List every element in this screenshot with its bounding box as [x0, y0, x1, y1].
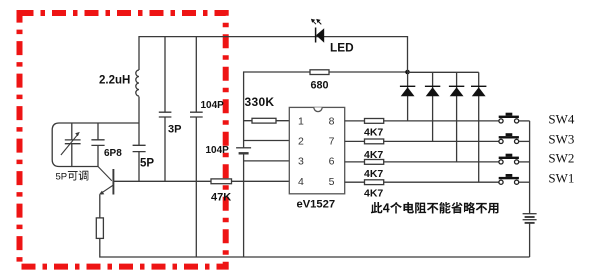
svg-text:1: 1: [298, 115, 304, 127]
wire: LED drop to junction: [407, 36, 409, 72]
IC U1 eV1527 body: [289, 107, 344, 193]
LED D5 emission arrows: [313, 21, 322, 25]
variable capacitor CV arrow: [61, 134, 78, 155]
svg-text:47K: 47K: [211, 192, 231, 204]
wire: SW2 to right bus: [519, 161, 530, 163]
diode D1 cathode bar: [400, 85, 415, 87]
red dash-dot highlight frame around oscillator section: [20, 13, 226, 267]
svg-text:5P: 5P: [56, 171, 68, 182]
wire: SW4 to right bus: [519, 120, 530, 122]
resistor 4K7 (1) body: [365, 119, 384, 124]
capacitor 3P plates: [159, 112, 172, 117]
wire: IC pin 3: [244, 160, 290, 162]
svg-text:4K7: 4K7: [364, 126, 383, 138]
svg-text:6P8: 6P8: [104, 148, 122, 159]
diode D4 lead wire: [478, 72, 480, 182]
capacitor C104P-a plates: [190, 112, 203, 117]
svg-text:330K: 330K: [245, 95, 275, 109]
wire: SW3 to right bus: [519, 140, 530, 142]
svg-text:4K7: 4K7: [364, 168, 383, 180]
svg-text:8: 8: [329, 115, 335, 127]
wire: battery to ground rail: [529, 223, 531, 257]
wire: IC pin 6 row to switch: [345, 161, 499, 163]
switch SW4 body bar: [499, 116, 519, 118]
transistor Q1 emitter with arrow: [101, 185, 113, 193]
wire: emitter down to resistor RE: [99, 195, 101, 218]
diode D1 triangle: [401, 87, 415, 96]
wire: diode top bus: [408, 71, 479, 73]
resistor 330K body: [252, 118, 276, 123]
svg-text:680: 680: [311, 80, 329, 92]
capacitor C104P-b bottom plate: [239, 152, 249, 154]
svg-text:6: 6: [329, 156, 335, 168]
switch SW4 terminals: [499, 119, 503, 123]
resistor 4K7 (2) body: [365, 139, 384, 144]
capacitor 5P plates: [133, 145, 146, 151]
svg-text:eV1527: eV1527: [297, 199, 336, 211]
capacitor 6P8 plates: [91, 140, 104, 146]
svg-text:5P: 5P: [140, 158, 154, 170]
wire: supply vertical with corner to 680: [244, 72, 310, 257]
switch SW4 button: [506, 113, 513, 116]
transistor Q1 base bar: [112, 169, 114, 195]
diode D4 triangle: [472, 87, 486, 96]
capacitor 3P branch wire: [164, 36, 166, 181]
resistor 4K7 (3) body: [365, 160, 384, 165]
wire: SW1 to right bus: [519, 181, 530, 183]
svg-text:SW1: SW1: [548, 170, 574, 185]
svg-text:104P: 104P: [206, 145, 230, 156]
diode D3 triangle: [450, 87, 464, 96]
LED D5 cathode bar: [315, 28, 317, 43]
diode D1 lead wire: [407, 72, 409, 121]
battery B1 plates: [523, 213, 537, 215]
svg-text:104P: 104P: [201, 100, 225, 111]
svg-text:SW3: SW3: [548, 131, 574, 146]
resistor 47K body: [211, 179, 232, 184]
switch SW1 button: [506, 174, 513, 177]
wire: top rail from inductor to LED anode: [139, 36, 408, 38]
wire: vertical drop into inductor L1: [138, 36, 140, 70]
node: tank loop (rounded antenna loop outline): [52, 123, 139, 167]
svg-text:LED: LED: [330, 40, 354, 54]
wire: right bus down to battery: [529, 121, 531, 214]
inductor L1 2.2uH coil: [136, 70, 139, 96]
svg-text:3: 3: [298, 156, 304, 168]
diode D4 cathode bar: [471, 85, 486, 87]
switch SW3 body bar: [499, 136, 519, 138]
IC U1 notch: [314, 107, 322, 111]
variable capacitor CV plates: [65, 140, 81, 144]
switch SW1 terminals: [499, 180, 503, 184]
switch SW3 button: [506, 133, 513, 136]
svg-text:5: 5: [329, 176, 335, 188]
wire: IC pin 2: [244, 140, 290, 142]
note text: 此4个电阻不能省略不用: [371, 202, 383, 213]
resistor 4K7 (4) body: [365, 180, 384, 185]
wire: IC pin 5 row to switch: [345, 181, 499, 183]
wire: inductor bottom to tank loop junction: [138, 97, 140, 124]
wire: base lead from loop to transistor Q1: [98, 167, 112, 181]
svg-text:3P: 3P: [168, 123, 181, 135]
switch SW3 terminals: [499, 139, 503, 143]
svg-text:SW4: SW4: [548, 112, 575, 127]
capacitor 6P8 leads: [97, 123, 99, 167]
junction node at LED/680/diode bus: [405, 70, 410, 75]
resistor 680 body: [310, 70, 329, 75]
capacitor C104P-a branch wire: [195, 36, 197, 257]
svg-text:2: 2: [298, 135, 304, 147]
svg-text:SW2: SW2: [548, 151, 574, 166]
resistor 330K lead wires: [244, 120, 290, 122]
resistor RE (emitter, vertical) body: [96, 218, 103, 239]
LED D5 triangle: [316, 28, 324, 42]
switch SW2 body bar: [499, 157, 519, 159]
diode D3 lead wire: [456, 72, 458, 162]
wire: IC pin 8 row to switch: [345, 120, 499, 122]
diode D2 lead wire: [432, 72, 434, 141]
wire: 680 to diode bus junction: [329, 71, 408, 73]
wire: IC pin 7 row to switch: [345, 140, 499, 142]
switch SW2 button: [506, 154, 513, 157]
capacitor C104P-b top plate: [236, 147, 251, 149]
wire: collector rail to IC pin 4: [113, 180, 289, 182]
diode D3 cathode bar: [449, 85, 464, 87]
wire: RE to ground rail: [99, 238, 529, 257]
svg-text:4K7: 4K7: [364, 188, 383, 200]
svg-text:2.2uH: 2.2uH: [99, 74, 130, 86]
switch SW2 terminals: [499, 160, 503, 164]
switch SW1 body bar: [499, 177, 519, 179]
variable capacitor CV 5P leads: [71, 123, 73, 167]
diode D2 cathode bar: [425, 85, 440, 87]
svg-text:4: 4: [298, 176, 304, 188]
diode D2 triangle: [426, 87, 440, 96]
svg-text:7: 7: [329, 135, 335, 147]
capacitor 5P (on inductor branch) leads: [138, 123, 140, 182]
